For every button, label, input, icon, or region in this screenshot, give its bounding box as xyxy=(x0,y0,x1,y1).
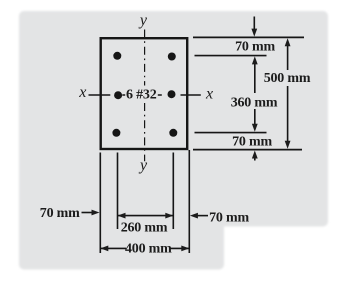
svg-text:y: y xyxy=(138,12,148,29)
svg-text:70 mm: 70 mm xyxy=(232,134,272,149)
svg-text:400 mm: 400 mm xyxy=(125,242,172,257)
svg-text:6 #32: 6 #32 xyxy=(126,88,157,103)
svg-text:70 mm: 70 mm xyxy=(235,39,275,54)
svg-text:500 mm: 500 mm xyxy=(264,71,311,86)
svg-text:x: x xyxy=(78,84,86,101)
svg-text:360 mm: 360 mm xyxy=(231,95,278,110)
svg-text:70 mm: 70 mm xyxy=(209,210,249,225)
svg-text:x: x xyxy=(205,86,213,103)
svg-text:260 mm: 260 mm xyxy=(121,220,168,235)
svg-text:y: y xyxy=(138,157,148,174)
svg-text:70 mm: 70 mm xyxy=(40,206,80,221)
